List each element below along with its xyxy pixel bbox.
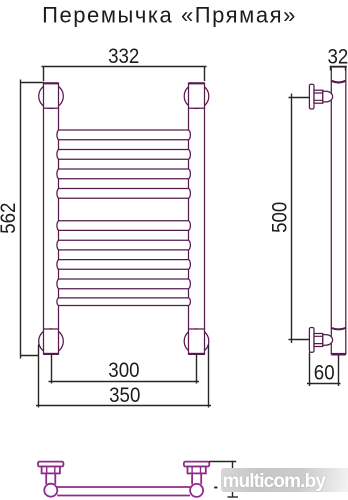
watermark text	[223, 471, 326, 493]
watermark dimension arrow fragment	[214, 487, 217, 489]
rung 5	[57, 221, 191, 231]
right ball joint	[190, 484, 203, 497]
left stem	[46, 473, 55, 484]
right vertical tube	[189, 108, 205, 329]
side tube bottom weld seam	[331, 328, 346, 329]
svg-text:60: 60	[314, 361, 335, 384]
bar bottom line	[57, 495, 190, 497]
rung 1	[57, 130, 191, 140]
left top mounting ring	[39, 84, 64, 109]
rung 7	[57, 260, 191, 270]
left top cup end cap	[44, 82, 59, 84]
svg-text:32: 32	[328, 45, 348, 68]
left bottom mounting ring	[39, 329, 64, 354]
side tube	[331, 67, 346, 355]
rung 2	[57, 150, 191, 160]
left nut	[42, 467, 60, 474]
dimension 350 lines	[36, 345, 211, 408]
extension line bottom-left circle	[38, 345, 40, 408]
top bracket dome	[323, 91, 333, 102]
left top cup	[44, 83, 59, 108]
bar top line	[57, 486, 190, 488]
top bracket nut	[314, 90, 323, 103]
rung 8	[57, 279, 191, 289]
watermark dimension vertical line	[232, 461, 234, 498]
top bracket flange	[309, 84, 314, 109]
rung 4	[57, 189, 191, 199]
right wall flange	[184, 462, 209, 467]
watermark box	[221, 468, 348, 492]
svg-text:500: 500	[268, 202, 291, 233]
left vertical tube	[44, 108, 59, 329]
top bracket nut facets	[314, 93, 323, 100]
right bottom mounting ring	[184, 329, 209, 354]
svg-text:Перемычка «Прямая»: Перемычка «Прямая»	[42, 2, 297, 27]
right nut facets	[192, 467, 200, 474]
left ball joint	[44, 484, 57, 497]
bottom bracket flange	[309, 328, 314, 353]
right top mounting ring	[184, 84, 209, 109]
svg-text:562: 562	[0, 203, 20, 234]
dimension 32 line	[330, 67, 347, 71]
bottom bracket dome	[323, 335, 333, 346]
right top cup	[189, 83, 205, 108]
side tube bottom cap	[331, 353, 346, 356]
right bottom cup	[189, 329, 205, 354]
right stem	[192, 473, 201, 484]
rung 6	[57, 240, 191, 250]
left bottom cup end cap	[44, 353, 59, 355]
rung 9	[57, 298, 191, 306]
left nut facets	[47, 467, 55, 474]
right nut	[188, 467, 206, 474]
dimension 300 lines	[49, 355, 200, 384]
watermark dimension top extension	[209, 461, 236, 463]
rung 3	[57, 169, 191, 179]
bottom bracket nut facets	[314, 336, 323, 343]
side tube top weld seam	[331, 81, 346, 83]
svg-text:350: 350	[109, 384, 140, 407]
watermark dimension bottom tick	[228, 496, 239, 498]
dimension 562 line	[21, 80, 45, 359]
bottom bracket nut	[314, 334, 323, 347]
right bottom cup end cap	[189, 353, 205, 355]
left wall flange	[38, 462, 63, 467]
svg-text:332: 332	[108, 45, 139, 68]
right top cup end cap	[189, 82, 205, 84]
dimension 332 line	[42, 67, 207, 82]
left bottom cup	[44, 329, 59, 354]
svg-text:300: 300	[108, 359, 139, 382]
dimension 60 lines	[307, 352, 341, 386]
dimension 500 line	[289, 94, 310, 344]
